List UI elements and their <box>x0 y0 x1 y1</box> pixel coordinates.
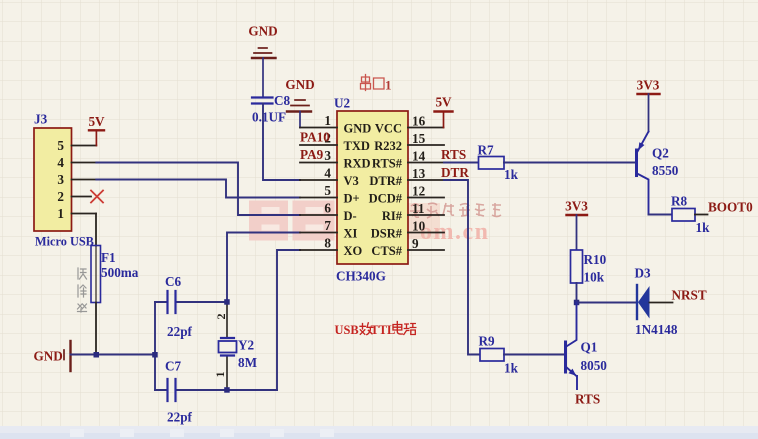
power 3V3 at R10 <box>565 199 588 251</box>
svg-text:5V: 5V <box>88 114 105 129</box>
wire U2.8 XO to crystal bottom <box>277 250 300 390</box>
svg-text:VCC: VCC <box>375 122 402 136</box>
svg-text:DTR#: DTR# <box>369 174 402 188</box>
wire R7 to Q2 base <box>504 162 637 164</box>
svg-text:GND: GND <box>34 349 63 364</box>
svg-text:6: 6 <box>324 201 331 216</box>
svg-text:8050: 8050 <box>581 358 608 373</box>
svg-text:10: 10 <box>412 219 426 234</box>
resistor R8 <box>671 194 710 236</box>
svg-text:D3: D3 <box>635 266 652 281</box>
svg-text:RTS: RTS <box>441 147 466 162</box>
power 5V at U2.16 <box>435 95 453 128</box>
fuse F1 <box>91 246 139 303</box>
svg-text:U2: U2 <box>334 96 351 111</box>
svg-text:DCD#: DCD# <box>369 192 403 206</box>
svg-text:NRST: NRST <box>672 288 707 303</box>
junction dots <box>94 299 580 393</box>
svg-text:TXD: TXD <box>344 139 370 153</box>
svg-text:USB: USB <box>335 323 359 337</box>
IC U2 CH340G <box>334 96 408 284</box>
svg-text:16: 16 <box>412 114 426 129</box>
svg-text:8: 8 <box>324 236 331 251</box>
capacitor C8 <box>252 93 291 125</box>
svg-text:PA9: PA9 <box>300 147 324 162</box>
wire pin14 to R7 <box>444 162 479 164</box>
svg-text:10k: 10k <box>584 270 605 285</box>
ground GND left <box>34 341 71 371</box>
svg-text:1k: 1k <box>696 220 711 235</box>
wire C8 to U2.4 V3 <box>263 104 300 181</box>
svg-text:D-: D- <box>344 209 357 223</box>
svg-text:1k: 1k <box>504 361 519 376</box>
net label 串口1 (red) <box>361 75 385 91</box>
svg-text:5: 5 <box>324 183 331 198</box>
resistor R7 <box>478 143 519 183</box>
svg-text:C7: C7 <box>165 359 182 374</box>
diode D3 1N4148 <box>635 266 678 338</box>
svg-text:R7: R7 <box>478 143 495 158</box>
no-connect X on J3 pin2 <box>91 191 103 203</box>
svg-text:3V3: 3V3 <box>565 199 588 214</box>
svg-text:22pf: 22pf <box>167 410 193 425</box>
svg-text:CTS#: CTS# <box>371 244 402 258</box>
svg-text:3: 3 <box>57 172 64 187</box>
svg-text:R232: R232 <box>374 139 402 153</box>
left rail for C6/C7 <box>154 302 156 390</box>
U2 pin names <box>344 122 372 259</box>
wire R9 to Q1 base <box>504 354 566 356</box>
svg-text:1k: 1k <box>504 167 519 182</box>
wire Q2 collector to R8 <box>649 214 673 216</box>
wire R10 to node <box>576 283 578 303</box>
svg-text:R10: R10 <box>584 252 607 267</box>
wire R8 to BOOT0 <box>695 214 708 216</box>
svg-text:XI: XI <box>344 227 358 241</box>
svg-text:BOOT0: BOOT0 <box>708 200 753 215</box>
svg-text:RXD: RXD <box>344 157 371 171</box>
svg-text:C8: C8 <box>274 93 291 108</box>
svg-text:GND: GND <box>285 77 314 92</box>
svg-text:4: 4 <box>57 155 64 170</box>
svg-text:GND: GND <box>344 122 372 136</box>
power 3V3 at Q2 <box>637 78 660 132</box>
svg-text:V3: V3 <box>344 174 359 188</box>
svg-text:3: 3 <box>324 148 331 163</box>
svg-text:CH340G: CH340G <box>336 269 386 284</box>
bottom page band <box>0 426 758 439</box>
svg-text:RI#: RI# <box>382 209 403 223</box>
svg-text:7: 7 <box>324 218 331 233</box>
svg-text:Q2: Q2 <box>652 146 669 161</box>
svg-text:PA10: PA10 <box>300 130 330 145</box>
ground GND at U2 pin1 <box>285 77 314 128</box>
svg-text:J3: J3 <box>34 112 48 127</box>
power 5V at J3 <box>88 114 105 146</box>
wire node to D3 <box>577 302 638 304</box>
svg-text:XO: XO <box>344 244 363 258</box>
保险丝 vertical gray text <box>78 268 87 312</box>
wire J3.1 down to fuse <box>95 214 97 246</box>
U2 pin stubs right <box>408 128 444 251</box>
svg-text:22pf: 22pf <box>167 324 193 339</box>
svg-text:9: 9 <box>412 236 419 251</box>
svg-text:1: 1 <box>57 206 64 221</box>
transistor Q2 8550 (PNP) <box>637 132 679 215</box>
svg-text:4: 4 <box>324 166 331 181</box>
svg-text:Y2: Y2 <box>238 338 255 353</box>
resistor R10 <box>571 250 607 285</box>
caption USB转TTL电路 (red) <box>335 322 416 338</box>
resistor R9 <box>479 334 519 376</box>
svg-text:500ma: 500ma <box>101 265 139 280</box>
svg-text:1: 1 <box>324 113 331 128</box>
svg-text:F1: F1 <box>101 250 116 265</box>
svg-text:RTS: RTS <box>575 392 600 407</box>
svg-text:RTS#: RTS# <box>372 157 403 171</box>
wire J3.4 to U2.6 <box>96 163 300 216</box>
connector J3 <box>34 112 94 249</box>
wire U2.7 XI to crystal <box>227 233 300 303</box>
wire fuse to gnd rail <box>95 303 97 355</box>
svg-text:1N4148: 1N4148 <box>635 322 678 337</box>
transistor Q1 8050 (NPN) <box>566 303 608 390</box>
svg-text:15: 15 <box>412 131 426 146</box>
cursive chinese watermark <box>410 203 501 218</box>
svg-text:Micro USB: Micro USB <box>35 235 94 249</box>
svg-text:TTL: TTL <box>371 323 396 337</box>
faint band glyphs <box>70 429 334 437</box>
svg-text:12: 12 <box>412 184 426 199</box>
capacitor C6 <box>155 274 227 339</box>
svg-text:D+: D+ <box>344 192 360 206</box>
svg-text:R8: R8 <box>671 194 688 209</box>
svg-text:1: 1 <box>213 372 227 378</box>
svg-text:DTR: DTR <box>441 165 469 180</box>
ground GND top (above C8) <box>248 24 277 98</box>
J3 pin stubs <box>72 146 97 214</box>
svg-text:2: 2 <box>214 314 228 320</box>
U2 pin stubs left <box>300 128 337 251</box>
svg-text:Q1: Q1 <box>581 340 598 355</box>
svg-text:11: 11 <box>412 201 424 216</box>
svg-text:0.1UF: 0.1UF <box>252 110 286 125</box>
capacitor C7 <box>155 359 277 425</box>
crystal Y2 <box>213 302 258 390</box>
svg-text:C6: C6 <box>165 274 182 289</box>
svg-text:5: 5 <box>57 138 64 153</box>
svg-text:14: 14 <box>412 149 426 164</box>
svg-text:GND: GND <box>248 24 277 39</box>
svg-text:2: 2 <box>57 189 64 204</box>
U2 pin numbers left <box>324 113 331 251</box>
watermark EEPW letters <box>70 201 501 438</box>
U2 pin numbers right <box>412 114 426 252</box>
svg-text:R9: R9 <box>479 334 496 349</box>
svg-text:1: 1 <box>385 78 392 93</box>
svg-text:3V3: 3V3 <box>637 78 660 93</box>
svg-text:8550: 8550 <box>652 163 679 178</box>
svg-text:8M: 8M <box>238 355 258 370</box>
wire pin13 down to R9 <box>444 180 480 355</box>
gnd rail wire <box>71 354 156 356</box>
svg-text:5V: 5V <box>435 95 452 110</box>
svg-text:13: 13 <box>412 166 426 181</box>
svg-text:DSR#: DSR# <box>371 227 403 241</box>
wire J3.3 to U2.5 <box>96 180 300 198</box>
